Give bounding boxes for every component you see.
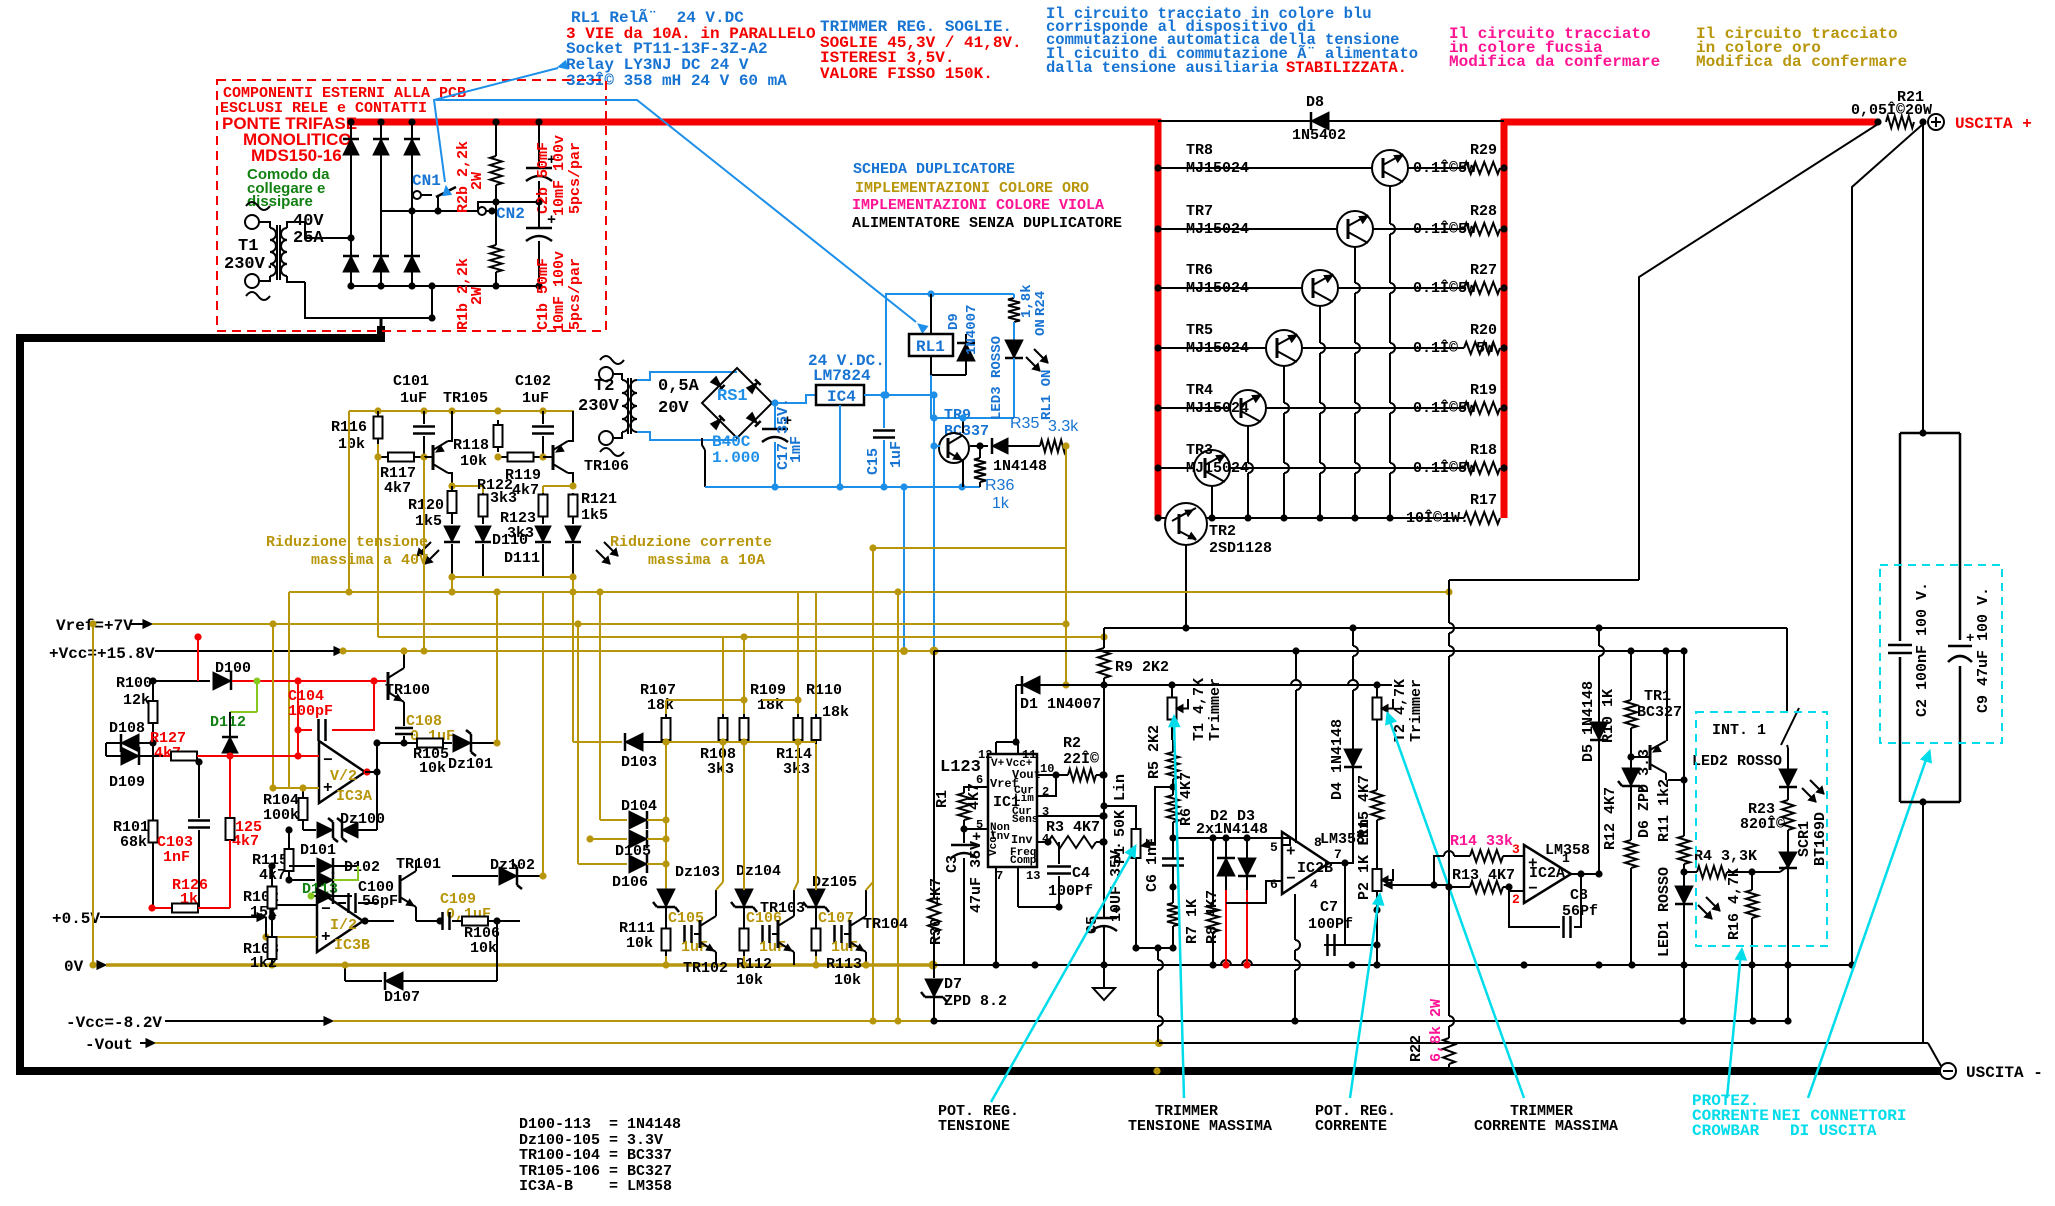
resistor R23	[1740, 787, 1794, 835]
led LED2	[1692, 748, 1824, 802]
diode bridge top 3	[404, 139, 420, 155]
svg-text:D100-113 = 1N4148: D100-113 = 1N4148	[519, 1116, 681, 1133]
wire blue verticals down	[900, 395, 939, 656]
wire emitter TR3 down	[1208, 486, 1215, 522]
svg-text:IMPLEMENTAZIONI COLORE VIOLA: IMPLEMENTAZIONI COLORE VIOLA	[852, 197, 1104, 214]
svg-text:CN1: CN1	[412, 172, 441, 190]
wire TR2 emitter	[1185, 545, 1187, 628]
svg-text:1nF: 1nF	[163, 849, 190, 866]
trimmer T2	[1373, 679, 1426, 790]
svg-text:-Vout: -Vout	[85, 1036, 133, 1054]
text riduzione tensione	[266, 534, 428, 569]
svg-text:10k: 10k	[834, 972, 861, 989]
resistor R13	[1384, 867, 1524, 907]
svg-text:R14 33k: R14 33k	[1450, 833, 1513, 850]
wire CN node	[478, 198, 543, 211]
wire curlim pin	[1037, 775, 1056, 796]
svg-text:1N4148: 1N4148	[993, 458, 1047, 475]
wire osc bottom node	[448, 573, 576, 580]
svg-text:R1: R1	[934, 790, 951, 808]
wire bridge column 1	[350, 122, 352, 286]
text R19	[1413, 382, 1497, 417]
wire cyan arrow C2C9	[1808, 750, 1931, 1098]
text R2b	[455, 141, 486, 213]
svg-text:10k: 10k	[419, 760, 446, 777]
svg-text:R9 2K2: R9 2K2	[1115, 659, 1169, 676]
svg-text:11: 11	[1022, 748, 1036, 762]
diode bridge bottom 2	[373, 256, 389, 272]
resistor R101	[113, 743, 158, 908]
zener D7	[921, 965, 1007, 1025]
resistor R120	[408, 486, 457, 530]
svg-text:+: +	[972, 829, 981, 846]
text comodo da collegare	[247, 166, 330, 210]
svg-text:D8: D8	[1306, 94, 1324, 111]
resistor R19	[1464, 402, 1500, 414]
svg-text:dissipare: dissipare	[247, 193, 313, 210]
wire cyan arrow T1	[1169, 715, 1184, 1098]
ic IC1 box	[988, 754, 1041, 867]
svg-text:3k3: 3k3	[490, 490, 517, 507]
zener D6	[1618, 749, 1653, 840]
capacitor C100	[338, 879, 398, 913]
wire cursens pin	[1037, 812, 1107, 819]
dashed box componenti esterni	[217, 80, 606, 331]
svg-text:RL1: RL1	[916, 338, 945, 356]
junction bridge 3	[408, 118, 415, 289]
svg-text:R16 4,7K: R16 4,7K	[1726, 868, 1743, 940]
svg-text:RS1: RS1	[717, 387, 748, 406]
svg-text:1N5402: 1N5402	[1292, 127, 1346, 144]
svg-text:MJ15024: MJ15024	[1186, 340, 1249, 357]
wire emitter TR7 down	[1351, 247, 1360, 522]
svg-text:IMPLEMENTAZIONI COLORE ORO: IMPLEMENTAZIONI COLORE ORO	[855, 180, 1089, 197]
resistor R107	[640, 682, 748, 744]
wire diag from R21 left	[1639, 124, 1878, 580]
bus 637	[378, 633, 1108, 640]
text block trimmer soglie	[820, 18, 1022, 83]
wire IC2A out	[1571, 870, 1603, 877]
svg-text:D111: D111	[504, 550, 540, 567]
svg-text:2SD1128: 2SD1128	[1209, 540, 1272, 557]
svg-text:4k7: 4k7	[232, 833, 259, 850]
svg-text:1uF: 1uF	[681, 939, 708, 956]
svg-text:7: 7	[996, 869, 1003, 883]
wire IC2B in6	[1226, 881, 1282, 903]
svg-text:0.1Î© 5W: 0.1Î© 5W	[1413, 339, 1494, 357]
junction T1 mid	[347, 234, 354, 241]
svg-text:7: 7	[1334, 847, 1342, 862]
svg-text:0.1Î©5W.: 0.1Î©5W.	[1413, 279, 1485, 297]
svg-text:IC2A: IC2A	[1529, 865, 1565, 882]
diode D102	[285, 859, 380, 888]
wire emitter TR8 down	[1386, 186, 1395, 522]
resistor R108	[700, 637, 736, 778]
svg-text:T1: T1	[238, 237, 258, 256]
svg-text:3k3: 3k3	[783, 761, 810, 778]
svg-text:10k: 10k	[736, 972, 763, 989]
wire IC2B fb	[1265, 881, 1267, 903]
capacitor C106	[744, 910, 786, 956]
text block scheda duplicatore	[852, 161, 1122, 232]
resistor R1	[934, 783, 988, 833]
resistor R110	[798, 592, 849, 744]
wire TR1 coll	[1666, 651, 1668, 741]
svg-text:TR105: TR105	[443, 390, 488, 407]
svg-text:Comp: Comp	[1010, 855, 1037, 867]
resistor R28	[1464, 223, 1500, 235]
wire cyan arrow P1	[991, 845, 1136, 1102]
svg-text:C101: C101	[393, 373, 429, 390]
svg-text:TR104: TR104	[863, 916, 908, 933]
svg-text:R19: R19	[1470, 382, 1497, 399]
wire olive vert 452b	[448, 577, 455, 596]
text IC1 pins	[976, 748, 1054, 883]
svg-text:R3 4K7: R3 4K7	[1046, 819, 1100, 836]
wire olive 543	[542, 592, 544, 876]
svg-text:3: 3	[1512, 842, 1520, 857]
svg-text:TR3: TR3	[1186, 442, 1213, 459]
pot P1	[1104, 774, 1141, 948]
svg-text:I/2: I/2	[330, 917, 357, 934]
diode D1	[1016, 676, 1392, 713]
text R22	[1408, 999, 1445, 1062]
capacitor C8	[1509, 874, 1598, 938]
resistor R116	[331, 411, 383, 453]
resistor R1b	[490, 202, 502, 286]
capacitor C5	[1084, 685, 1125, 988]
svg-text:MJ15024: MJ15024	[1186, 221, 1249, 238]
capacitor C2b	[526, 118, 556, 202]
svg-text:R7 1K: R7 1K	[1184, 899, 1201, 944]
capacitor C3	[944, 829, 985, 965]
wire olive vert 573b	[569, 577, 576, 596]
svg-text:0.1Î©5W.: 0.1Î©5W.	[1413, 159, 1485, 177]
wire base row TR3	[1154, 464, 1507, 471]
svg-text:2: 2	[1512, 892, 1520, 907]
svg-text:BC327: BC327	[1637, 704, 1682, 721]
svg-text:0,5A: 0,5A	[658, 377, 700, 396]
capacitor C1b	[526, 202, 556, 286]
svg-text:Dz100: Dz100	[340, 811, 385, 828]
svg-text:8: 8	[1314, 835, 1322, 850]
svg-text:R120: R120	[408, 497, 444, 514]
capacitor C17	[762, 398, 805, 487]
svg-text:USCITA +: USCITA +	[1955, 115, 2032, 133]
wire olive vert 1157	[1158, 1021, 1160, 1043]
svg-text:12k: 12k	[123, 692, 150, 709]
resistor R29	[1464, 162, 1500, 174]
text R18	[1413, 442, 1497, 477]
capacitor C105	[666, 910, 708, 956]
svg-text:R35: R35	[1010, 415, 1039, 432]
resistor R12	[1602, 787, 1637, 965]
svg-text:TR106: TR106	[584, 458, 629, 475]
svg-text:+Vcc=+15.8V: +Vcc=+15.8V	[49, 645, 155, 663]
capacitor C6	[1144, 838, 1184, 903]
svg-text:D104: D104	[621, 798, 657, 815]
svg-text:R17: R17	[1470, 492, 1497, 509]
text TR105	[443, 390, 488, 407]
svg-text:2x1N4148: 2x1N4148	[1196, 821, 1268, 838]
svg-text:CN2: CN2	[496, 205, 525, 223]
svg-text:TR6: TR6	[1186, 262, 1213, 279]
resistor R119	[494, 453, 546, 500]
svg-text:T1 4,7K: T1 4,7K	[1191, 678, 1208, 741]
svg-text:100Pf: 100Pf	[1308, 916, 1353, 933]
switch CN1	[381, 172, 478, 215]
svg-text:R118: R118	[453, 437, 489, 454]
svg-text:R112: R112	[736, 956, 772, 973]
bus Vref	[56, 617, 1070, 635]
transistor TR106	[543, 411, 629, 486]
svg-text:0.1Î©5W.: 0.1Î©5W.	[1413, 220, 1485, 238]
wire cyan arrow R16	[1727, 948, 1746, 1098]
svg-text:10mF 100v: 10mF 100v	[551, 135, 568, 216]
resistor R112	[736, 923, 772, 989]
svg-text:ON: ON	[1033, 319, 1049, 336]
svg-text:1.000: 1.000	[712, 449, 760, 467]
wire blue arrow to CN1	[434, 61, 568, 196]
svg-text:C2b 50mF: C2b 50mF	[535, 142, 552, 214]
bus -Vcc	[66, 1014, 934, 1032]
wire in3	[1409, 856, 1411, 858]
text block relay info	[566, 8, 816, 90]
capacitor C107	[816, 910, 858, 956]
svg-text:D108: D108	[109, 720, 145, 737]
svg-text:MJ15024: MJ15024	[1186, 460, 1249, 477]
resistor R7	[1167, 899, 1201, 948]
resistor R16	[1726, 868, 1758, 1021]
wire bridge mid link	[381, 286, 436, 326]
wire base row TR7	[1154, 225, 1507, 232]
switch INT1	[1712, 628, 1799, 748]
zener Dz103	[653, 864, 720, 923]
svg-text:dalla tensione ausiliaria: dalla tensione ausiliaria	[1046, 59, 1288, 77]
opamp IC2B	[1270, 831, 1365, 894]
svg-text:R2: R2	[1063, 735, 1081, 752]
resistor R100	[116, 675, 158, 747]
svg-text:C9 47uF 100 V.: C9 47uF 100 V.	[1975, 587, 1992, 713]
svg-text:1: 1	[1562, 851, 1570, 866]
resistor R20	[1464, 342, 1500, 354]
svg-text:TR102: TR102	[683, 960, 728, 977]
svg-text:Dz101: Dz101	[448, 756, 493, 773]
led D-right	[565, 518, 618, 577]
svg-text:IC2B: IC2B	[1297, 860, 1333, 877]
text R27	[1413, 262, 1497, 297]
text L123	[940, 758, 981, 777]
resistor R114	[776, 696, 812, 778]
wire IC3A plus	[269, 624, 319, 792]
svg-text:10: 10	[1040, 762, 1054, 776]
text R35	[1010, 415, 1079, 435]
wire RS1 bottom	[702, 438, 705, 487]
diode bridge bottom 1	[343, 256, 359, 272]
capacitor C7	[1308, 863, 1381, 956]
svg-text:56pF: 56pF	[362, 893, 398, 910]
svg-text:−: −	[1528, 880, 1538, 898]
resistor R115	[252, 826, 294, 884]
svg-text:TR100: TR100	[385, 682, 430, 699]
wire bus1020	[934, 1017, 1792, 1024]
svg-text:MJ15024: MJ15024	[1186, 400, 1249, 417]
svg-text:SCR1: SCR1	[1796, 821, 1813, 857]
svg-text:D106: D106	[612, 874, 648, 891]
transistor TR1	[1631, 688, 1682, 780]
wire sense 948	[1132, 944, 1176, 1042]
diode bridge top 1	[343, 139, 359, 155]
svg-text:D112: D112	[210, 714, 246, 731]
svg-text:C6 1nF: C6 1nF	[1144, 838, 1161, 892]
text trimmer tensione	[1128, 1103, 1272, 1135]
resistor R21	[1874, 116, 1926, 128]
svg-text:CORRENTE: CORRENTE	[1315, 1118, 1387, 1135]
wire IC2B plus	[1282, 838, 1290, 845]
svg-text:Dz105: Dz105	[812, 874, 857, 891]
text pot reg tensione	[938, 1103, 1019, 1135]
wire y580	[1449, 579, 1639, 581]
zener Dz104	[731, 744, 781, 923]
wire IC3B out	[361, 917, 394, 924]
wire RL1 box top	[882, 290, 1014, 398]
svg-text:Vcc−: Vcc−	[988, 829, 1000, 856]
svg-text:USCITA -: USCITA -	[1966, 1064, 2043, 1082]
svg-text:massima a 10A: massima a 10A	[648, 552, 765, 569]
svg-text:VALORE FISSO 150K.: VALORE FISSO 150K.	[820, 65, 993, 83]
transistor TR104	[850, 882, 908, 969]
resistor R118	[453, 420, 503, 470]
text C1b	[535, 251, 584, 332]
wire base row TR5	[1154, 344, 1507, 351]
text 24VDC	[808, 352, 885, 385]
resistor R6	[1167, 772, 1195, 858]
capacitor C9	[1948, 587, 1992, 713]
svg-text:L123: L123	[940, 758, 981, 777]
svg-text:R100: R100	[116, 675, 152, 692]
text pot reg corrente	[1315, 1103, 1396, 1135]
text ponte trifase	[222, 114, 357, 165]
svg-text:TENSIONE: TENSIONE	[938, 1118, 1010, 1135]
text C101	[393, 373, 429, 407]
resistor R5	[1146, 725, 1179, 795]
svg-text:C1b 50mF: C1b 50mF	[535, 258, 552, 330]
zener Dz100	[303, 768, 385, 842]
diode D100	[153, 660, 251, 690]
transistor TR102	[683, 742, 728, 977]
led LED3	[989, 322, 1055, 420]
svg-text:Trimmer: Trimmer	[1408, 679, 1425, 742]
wire base row TR4	[1154, 404, 1507, 411]
svg-text:TENSIONE MASSIMA: TENSIONE MASSIMA	[1128, 1118, 1272, 1135]
svg-text:C4: C4	[1072, 865, 1090, 882]
text R21	[1851, 89, 1932, 119]
wire bridge bottom bus	[351, 282, 543, 289]
svg-text:Dz103: Dz103	[675, 864, 720, 881]
diode D110	[475, 518, 528, 577]
terminal USCITA-	[1940, 1063, 2043, 1082]
svg-text:1uF: 1uF	[759, 939, 786, 956]
transistor TR8	[1186, 142, 1408, 186]
svg-text:V+: V+	[991, 758, 1005, 770]
bridge RS1	[702, 368, 772, 467]
wire D2D3 top	[1173, 834, 1290, 841]
svg-text:D9: D9	[946, 313, 962, 330]
svg-text:D4 1N4148: D4 1N4148	[1329, 719, 1346, 800]
wire T1 secondary to bridge	[305, 222, 432, 318]
wire emitter TR6 down	[1316, 306, 1325, 522]
opamp IC3A	[319, 741, 372, 805]
wire diag from out node	[1852, 124, 1923, 965]
svg-text:22Î©: 22Î©	[1063, 750, 1099, 768]
svg-text:TR5: TR5	[1186, 322, 1213, 339]
wire pin13	[1018, 867, 1063, 911]
led LED1	[1656, 867, 1720, 1021]
wire cyan arrow P2	[1350, 893, 1384, 1098]
svg-text:5pcs/par: 5pcs/par	[567, 258, 584, 330]
svg-text:3.3k: 3.3k	[1048, 418, 1079, 435]
resistor R117	[374, 453, 427, 498]
capacitor C4	[1047, 842, 1093, 907]
svg-text:6,8k 2W: 6,8k 2W	[1428, 999, 1445, 1062]
resistor R4	[1684, 848, 1757, 878]
svg-text:10mF 100v: 10mF 100v	[551, 251, 568, 332]
wire IC2B pin4	[1295, 894, 1300, 1021]
svg-text:ALIMENTATORE SENZA DUPLICATORE: ALIMENTATORE SENZA DUPLICATORE	[852, 215, 1122, 232]
capacitor C15	[865, 395, 905, 487]
bus +0.5V	[52, 910, 266, 928]
svg-text:DI USCITA: DI USCITA	[1790, 1122, 1877, 1140]
text trimmer corrente	[1474, 1103, 1618, 1135]
junction bridge 1	[347, 118, 354, 289]
svg-text:2W: 2W	[469, 287, 486, 305]
bus +Vcc	[49, 645, 934, 663]
resistor R121	[569, 491, 618, 524]
svg-text:0.1Î©5W.: 0.1Î©5W.	[1413, 459, 1485, 477]
wire R13 feed	[1423, 857, 1425, 886]
svg-text:100pF: 100pF	[288, 703, 333, 720]
wire emitter TR4 down	[1244, 426, 1253, 522]
wire bridge column 3	[411, 122, 413, 286]
svg-text:TR101: TR101	[396, 856, 441, 873]
svg-text:BC337: BC337	[944, 423, 989, 440]
text riduzione corrente	[610, 534, 772, 569]
svg-text:−: −	[321, 901, 331, 919]
diode bridge top 2	[373, 139, 389, 155]
relay RL1	[909, 294, 966, 375]
transistor TR100	[385, 647, 430, 710]
svg-text:D110: D110	[492, 532, 528, 549]
bus -Vout	[85, 1036, 1941, 1066]
svg-text:10Î©1W.: 10Î©1W.	[1406, 509, 1469, 527]
svg-text:IC3B: IC3B	[334, 937, 370, 954]
wire red D100 out	[232, 678, 386, 685]
wire bridge lower link	[455, 187, 457, 211]
resistor R104	[263, 784, 308, 830]
svg-text:4: 4	[1310, 877, 1318, 892]
text block circuito blu	[1046, 5, 1418, 77]
wire blue arrow to RL1	[436, 100, 928, 333]
svg-text:LED3 ROSSO: LED3 ROSSO	[989, 336, 1005, 420]
svg-text:TR2: TR2	[1209, 523, 1236, 540]
svg-text:massima a 40V: massima a 40V	[311, 552, 428, 569]
svg-text:3k3: 3k3	[707, 761, 734, 778]
transistor TR6	[1186, 262, 1338, 306]
svg-text:1uF: 1uF	[400, 390, 427, 407]
wire olive vert 898	[894, 592, 901, 1025]
transistor TR3	[1186, 442, 1249, 486]
wire TR9 collector	[959, 414, 966, 433]
